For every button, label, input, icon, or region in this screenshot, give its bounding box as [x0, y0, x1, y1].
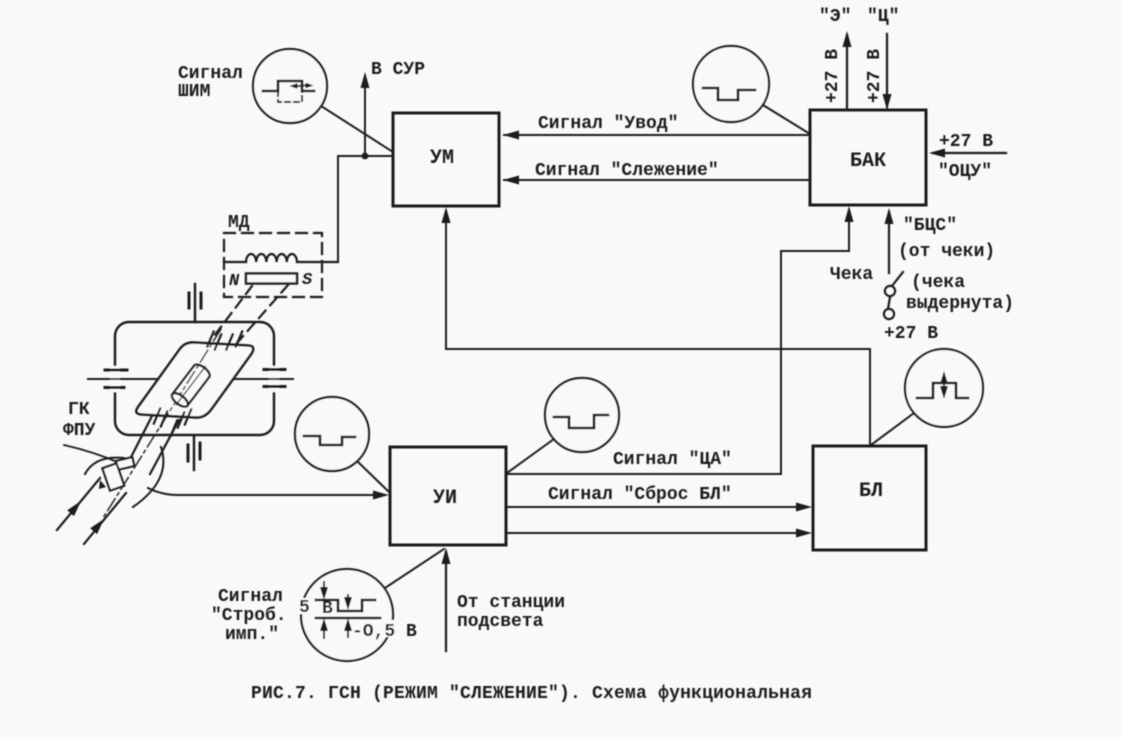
gyro spin axis: [103, 329, 221, 518]
svg-text:(от чеки): (от чеки): [898, 242, 995, 262]
gyro outer frame: [115, 322, 274, 435]
svg-text:УИ: УИ: [433, 487, 457, 510]
bearing bottom: [193, 436, 195, 470]
bearing tick marks on rotor shaft: [154, 332, 242, 436]
rotation arc right: [133, 447, 163, 507]
waveform circle near БАК: [693, 46, 769, 122]
rotor cylinder: [169, 361, 213, 411]
waveform circle строб имп: [301, 569, 393, 661]
wire signal ЦА (УИ to БАК): [506, 210, 849, 474]
switch Чека: [892, 272, 903, 286]
svg-text:Чека: Чека: [830, 265, 873, 285]
incoming ray arrow 1: [57, 478, 100, 530]
svg-text:МД: МД: [228, 213, 250, 233]
wire Э output: [846, 35, 848, 110]
waveform circle above УИ-БЛ: [545, 378, 619, 452]
svg-text:подсвета: подсвета: [457, 612, 544, 632]
shaft dashed line 2 (magnet to rotor): [237, 285, 288, 343]
svg-text:"Строб.: "Строб.: [211, 605, 287, 626]
svg-text:ШИМ: ШИМ: [178, 82, 210, 102]
block БЛ: [813, 446, 926, 550]
wire ФПУ to УИ: [148, 488, 383, 495]
svg-text:Сигнал "Сброс БЛ": Сигнал "Сброс БЛ": [548, 484, 732, 505]
bearing top: [194, 284, 196, 322]
svg-text:+27 В: +27 В: [865, 49, 885, 103]
optical tube lines: [128, 416, 152, 463]
svg-text:"БЦС": "БЦС": [903, 216, 957, 236]
svg-text:БЛ: БЛ: [859, 480, 883, 503]
rotation arrowheads: [99, 480, 106, 489]
callout line строб circle to УИ bottom: [385, 549, 444, 588]
svg-text:-О,5 В: -О,5 В: [352, 622, 417, 642]
svg-text:"Ц": "Ц": [867, 7, 899, 27]
svg-text:"ОЦУ": "ОЦУ": [938, 162, 992, 182]
node junction: [362, 153, 369, 160]
wire Ц input: [886, 34, 888, 107]
svg-text:+27 В: +27 В: [939, 132, 993, 152]
svg-text:выдернута): выдернута): [906, 294, 1014, 314]
wire БЦС from чека switch: [888, 212, 890, 273]
svg-text:В СУР: В СУР: [371, 60, 425, 80]
svg-text:+27 В: +27 В: [823, 49, 843, 103]
wire БЛ to УМ: [446, 211, 870, 446]
svg-text:Сигнал "Увод": Сигнал "Увод": [538, 114, 678, 134]
block УМ: [393, 113, 499, 206]
svg-text:5: 5: [299, 598, 310, 618]
svg-text:В: В: [322, 599, 333, 619]
inner gimbal parallelogram: [136, 342, 253, 417]
magnet: [246, 274, 297, 284]
svg-text:УМ: УМ: [430, 147, 454, 170]
svg-text:"Э": "Э": [819, 7, 851, 27]
block УИ: [390, 447, 506, 545]
svg-text:(чека: (чека: [911, 273, 965, 293]
svg-text:N: N: [229, 272, 240, 291]
ФПУ detector box: [116, 457, 135, 470]
svg-text:Сигнал "Слежение": Сигнал "Слежение": [535, 161, 719, 181]
bearing right gap: [269, 366, 279, 392]
coil: [224, 254, 338, 262]
МД dashed box: [224, 233, 322, 297]
wire +27 В ОЦУ input: [933, 152, 1006, 154]
svg-text:ФПУ: ФПУ: [63, 421, 96, 441]
callout line pulse circle to БЛ: [871, 413, 914, 445]
svg-text:БАК: БАК: [850, 150, 886, 173]
callout line pulse circle to УИ right: [507, 439, 554, 473]
waveform circle near УИ left: [295, 397, 369, 471]
svg-text:ГК: ГК: [68, 400, 90, 420]
wire В СУР output arrow: [364, 76, 366, 156]
callout line ГК ФПУ: [64, 445, 122, 464]
svg-text:РИС.7. ГСН (РЕЖИМ "СЛЕЖЕНИЕ").: РИС.7. ГСН (РЕЖИМ "СЛЕЖЕНИЕ"). Схема фун…: [251, 684, 812, 704]
svg-text:S: S: [302, 271, 313, 290]
svg-text:Сигнал: Сигнал: [178, 64, 243, 84]
incoming ray arrow 2: [84, 493, 126, 544]
waveform circle ШИМ: [253, 49, 327, 123]
svg-text:+27 В: +27 В: [884, 324, 938, 344]
wire signal Сброс БЛ (УИ to БЛ): [506, 506, 806, 508]
svg-text:Сигнал: Сигнал: [218, 587, 283, 607]
rotation arc left: [85, 458, 124, 474]
wire УИ to БЛ lower: [506, 532, 806, 534]
waveform circle near БЛ: [905, 349, 983, 427]
callout line pulse circle to БАК: [763, 105, 810, 134]
wire signal Увод (БАК to УМ): [504, 134, 810, 136]
svg-text:Сигнал "ЦА": Сигнал "ЦА": [613, 450, 732, 470]
wire От станции подсвета input: [445, 552, 447, 651]
wire МД coil to УМ: [338, 156, 393, 262]
callout line ШИМ circle to УМ: [321, 106, 393, 152]
callout line pulse circle to УИ left: [357, 461, 389, 492]
svg-text:От станции: От станции: [457, 593, 565, 613]
svg-text:имп.": имп.": [225, 625, 279, 645]
wire signal Слежение (БАК to УМ): [504, 179, 810, 181]
shaft dashed line 1 (magnet to rotor): [211, 286, 252, 340]
block БАК: [810, 110, 926, 205]
bearing left gap: [110, 366, 120, 392]
